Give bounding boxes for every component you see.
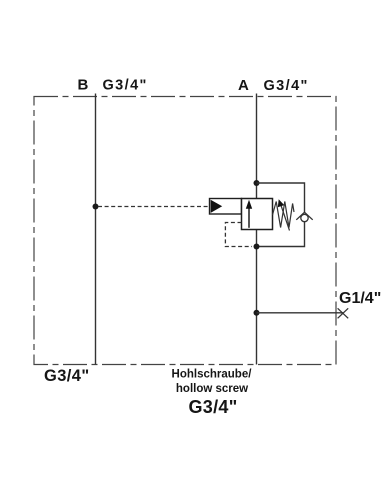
svg-text:A: A [238, 77, 249, 94]
spring adjustment arrow [281, 205, 290, 231]
pilot actuator box [210, 199, 242, 215]
wire: G1/4 port line [257, 312, 344, 314]
pilot actuator triangle [211, 200, 223, 213]
pilot line from B (dashed) [98, 206, 210, 208]
svg-text:G3/4": G3/4" [44, 367, 90, 385]
node A top junction [254, 180, 260, 186]
svg-text:G3/4": G3/4" [188, 397, 237, 417]
relief valve body box [242, 199, 273, 230]
plugged port X [338, 308, 349, 318]
pilot drain line (dashed) [225, 223, 252, 247]
svg-text:G3/4": G3/4" [103, 78, 148, 94]
check valve seat (V) [296, 212, 312, 220]
wire: check valve return to line A [257, 222, 305, 247]
node on line B [93, 204, 99, 210]
node G1/4 branch [254, 310, 260, 316]
wire: branch to check valve [257, 183, 305, 212]
wire: line A vertical upper [256, 94, 258, 199]
svg-text:B: B [78, 77, 89, 94]
svg-text:G3/4": G3/4" [264, 78, 309, 94]
check valve ball [301, 214, 308, 221]
svg-text:G1/4": G1/4" [339, 290, 381, 307]
wire: line B vertical [95, 94, 97, 365]
svg-text:Hohlschraube/: Hohlschraube/ [172, 369, 253, 381]
node A bottom junction [254, 244, 260, 250]
svg-text:hollow screw: hollow screw [176, 383, 248, 395]
flow arrow inside valve [248, 208, 250, 228]
enclosure border (dash-dot) [34, 97, 336, 365]
wire: line A vertical lower [256, 230, 258, 365]
spring (zigzag) [273, 202, 295, 228]
